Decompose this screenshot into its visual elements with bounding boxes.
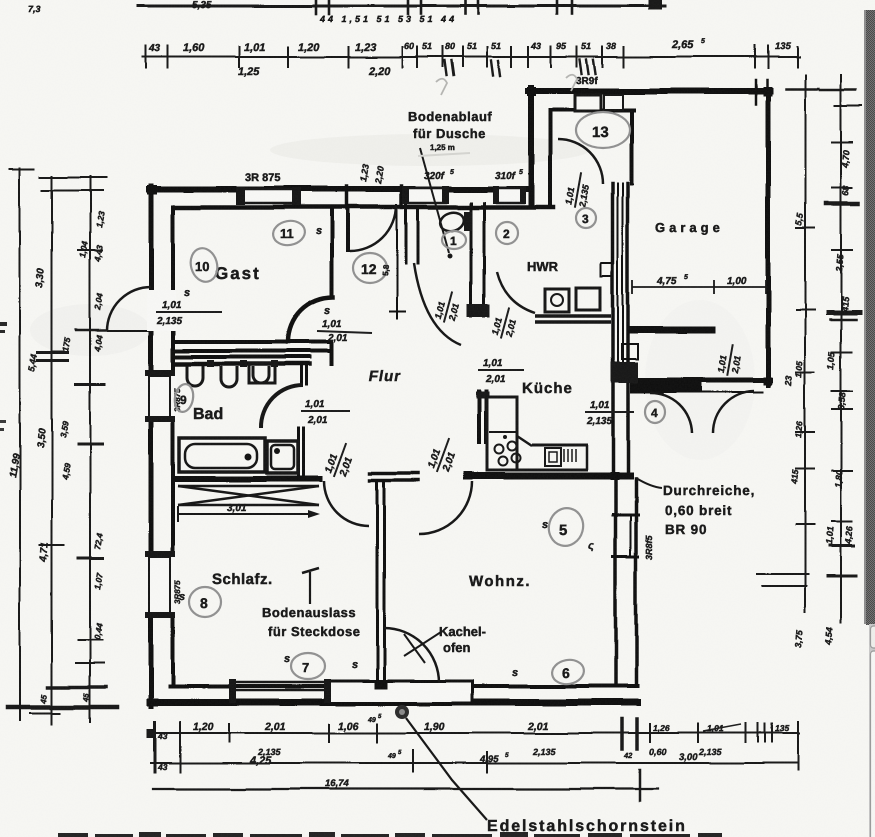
wall: bottom outer — [150, 699, 637, 706]
right bottom ticks — [757, 573, 808, 575]
wall: kueche/wohnz — [468, 473, 630, 480]
door arc: entrance — [558, 139, 603, 184]
left wall door opening — [147, 290, 176, 331]
circle 12 — [353, 253, 387, 283]
faint pencil line top — [418, 153, 470, 156]
scrollbar thumb — [871, 651, 875, 837]
wall: left outer — [149, 186, 154, 706]
garage inner bar — [630, 327, 713, 334]
door arcs: garage double door — [650, 393, 692, 433]
circle 13 — [576, 112, 630, 148]
garage small fixture — [601, 263, 613, 276]
measure arrow 3,01 — [178, 513, 316, 515]
door arc: left outside door — [107, 287, 151, 331]
wall junction ink blobs — [147, 87, 772, 706]
rotated fraction: schlafz door — [323, 439, 360, 482]
left mid ticks — [38, 351, 68, 354]
wall: left inner — [171, 207, 175, 686]
wall: entry alcove left inner — [548, 110, 552, 205]
chimney circle — [395, 705, 409, 719]
pencil T marks under top dims — [436, 79, 447, 95]
circle 8 — [189, 587, 221, 617]
right dim line A — [804, 75, 806, 612]
wall: alcove right vertical — [630, 110, 634, 183]
circle 4 — [645, 401, 665, 423]
door curve: hwr — [497, 272, 535, 313]
circle 7 — [291, 653, 325, 679]
garage top corner tick marks — [755, 80, 758, 104]
rotated fraction: hwr door — [489, 304, 520, 341]
wall: gast right double — [330, 207, 334, 295]
rotated fraction: garage rear door — [715, 342, 744, 378]
door arc: gast — [350, 205, 396, 251]
washing machine — [545, 289, 569, 312]
wall: bottom inner — [170, 684, 637, 688]
wall: bad right — [300, 364, 303, 385]
rotated fraction: wohnz door — [426, 434, 463, 477]
window: schlafz left — [146, 554, 177, 616]
door arc: bad — [261, 385, 303, 428]
door curve: wc — [414, 263, 461, 345]
dish rack — [563, 449, 565, 462]
wall: schlafz/wohnz T — [370, 471, 418, 475]
window: bad left — [146, 373, 177, 420]
left edge stray marks — [0, 322, 7, 326]
circle 11 — [271, 218, 307, 247]
scanner shading blobs — [270, 134, 590, 166]
stairs hatch box — [178, 485, 319, 488]
scrollbar track bottom right — [869, 624, 875, 837]
wall: top II outer (entrance+garage) — [528, 88, 770, 94]
bodenablauf leader — [420, 148, 449, 253]
sinks in bad — [187, 366, 203, 386]
wall: top inner — [175, 205, 553, 210]
left dim line 2 — [51, 176, 53, 724]
wall: wc left double — [405, 204, 408, 263]
right B ticks — [832, 141, 852, 143]
svg-text:7,3: 7,3 — [28, 4, 41, 14]
right dim line B — [840, 75, 842, 622]
kitchen sink — [545, 448, 561, 466]
window: schlafz bottom — [234, 681, 327, 684]
circle 5 — [545, 504, 588, 550]
window: gast top BR875 — [242, 189, 296, 203]
left dim line 1 — [19, 168, 21, 720]
wall: top jog v2 — [400, 186, 404, 208]
top partial dim line — [138, 0, 665, 14]
window: top 310 — [497, 188, 524, 203]
circle 6 — [550, 657, 586, 686]
left bottom ticks — [48, 685, 106, 689]
rotated fraction: wc door — [432, 288, 463, 325]
wall: top jog v1 — [345, 186, 349, 208]
kitchen hob block — [487, 397, 517, 470]
garage dim line 4,75 — [632, 286, 768, 288]
bottom edge cut-off writing speckles — [58, 832, 722, 837]
wall: bad bottom — [177, 476, 320, 482]
window: top 320 — [406, 188, 446, 203]
scrollbar button — [871, 626, 875, 648]
wall: garage bottom — [630, 378, 770, 383]
chimney box — [330, 681, 473, 703]
rotated fraction: entrance door — [563, 170, 593, 210]
top dim hatch marks 44 — [444, 60, 596, 76]
svg-text:44 1,51 51 53 51 44: 44 1,51 51 53 51 44 — [319, 14, 457, 24]
hwr counter — [535, 314, 611, 318]
left dim line 3 — [89, 176, 91, 722]
chimney leader — [406, 718, 487, 820]
shower tray — [267, 441, 298, 473]
kachelofen leader + X — [404, 632, 441, 656]
circle 2 — [496, 222, 518, 244]
door arc: wohnz — [419, 481, 472, 534]
circle 3 — [576, 208, 596, 228]
right top ticks — [786, 88, 818, 91]
right A ticks — [796, 227, 814, 229]
Durchreiche pass-through jambs — [613, 513, 638, 516]
wall: top outer — [149, 186, 531, 192]
antenna symbol schlafz — [309, 572, 311, 604]
kachelofen arc — [384, 628, 439, 683]
wall: entry alcove left outer — [528, 88, 534, 204]
toilet wc — [438, 210, 466, 234]
wall: wohnz right (below kueche wall) — [614, 479, 618, 686]
wall: gast bottom double — [175, 340, 331, 344]
durchreiche leader — [636, 478, 662, 488]
bathtub — [179, 438, 265, 472]
door leaf line + cross — [396, 205, 398, 310]
wall: kueche left double — [477, 392, 481, 443]
left top ticks — [40, 176, 106, 178]
wall: bad top double — [175, 355, 309, 359]
circle 1 — [442, 231, 466, 249]
wall: garage right — [766, 91, 771, 385]
bottom dim line 2 — [151, 762, 798, 764]
pencil squiggles — [179, 225, 594, 679]
wall: top II inner — [552, 108, 634, 112]
room label Flur — [367, 368, 402, 385]
top main dim line — [143, 46, 799, 68]
bottom dim line 1 — [150, 732, 799, 734]
wall: wc/hwr double — [470, 203, 473, 317]
wall: house/garage band — [611, 183, 615, 477]
wall: bad right lower — [298, 428, 301, 477]
dryer — [576, 288, 600, 310]
door arc: schlafz — [324, 481, 369, 526]
bottom dim line 3 — [153, 788, 658, 790]
circle 9 — [173, 383, 196, 414]
entrance door boxes — [575, 95, 601, 111]
kitchen counter — [517, 436, 532, 446]
funnel gast-flur — [288, 297, 333, 342]
circle 10 — [187, 245, 221, 285]
